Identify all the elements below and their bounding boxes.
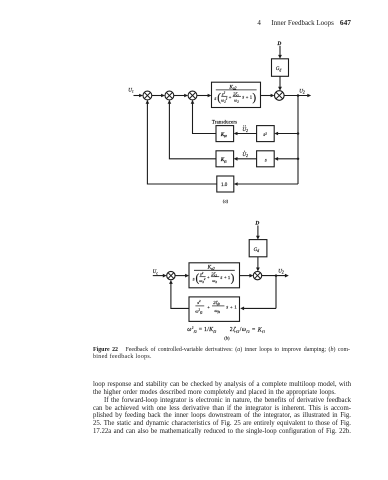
summer SL (fig b) [167,271,175,279]
svg-text:Transducers: Transducers [212,120,237,125]
figure caption line 2 [93,354,350,360]
svg-text:Uc: Uc [128,89,134,94]
svg-text:ω22: ω22 [199,277,206,284]
wire D to block Gd (fig b) [257,226,259,237]
block Ka2 forward transfer function (fig a) [212,82,261,107]
svg-text:ω2f2 = 1/Kf2: ω2f2 = 1/Kf2 [187,326,216,334]
svg-text:1: 1 [234,305,237,310]
svg-text:U2: U2 [299,90,305,95]
wire D to block Gd [279,46,281,55]
fraction bar (fig b forward block) [194,269,235,271]
junction tee on output line (fig b) [275,274,278,277]
svg-text:U2: U2 [242,152,248,158]
svg-text:Ka2: Ka2 [228,84,236,90]
block Gd (fig a) [272,59,289,77]
wire Uc to summer S1 [134,95,141,97]
svg-text:Gd: Gd [254,248,260,253]
svg-text:+: + [230,304,233,309]
figure caption line 1 [93,347,350,353]
svg-text:ω2: ω2 [212,278,217,284]
svg-text:+: + [246,94,249,99]
block Ka2 forward transfer function (fig b) [189,263,240,288]
wire feedback vertical right (fig a) [297,96,299,185]
junction tee on output line (fig a) [297,94,300,97]
summer S2 (fig a) [165,91,174,100]
body text [93,381,351,388]
wire forward block to summer S4 [261,95,272,97]
wire SR to output U2 (fig b) [262,275,285,277]
svg-text:Uc: Uc [153,270,159,275]
block Kf1 transducer gain (fig a) [216,151,234,167]
svg-text:s2: s2 [200,271,204,277]
block feedback s2/wf2^2 + 2zf2/wf2 s + 1 (fig b) [189,297,240,322]
svg-text:+: + [224,275,227,280]
summer SR output junction (fig b) [253,271,261,279]
wire S3 to forward block [197,95,208,97]
wire to block s2 [278,133,298,135]
svg-text:Kf1: Kf1 [220,158,227,163]
svg-text:s2: s2 [263,131,267,138]
block 1.0 unity feedback (fig a) [217,176,234,192]
svg-text:s2: s2 [222,91,226,97]
svg-text:s: s [220,276,222,281]
wire s to Kf1, label U-dot-2 [237,158,256,160]
svg-text:+: + [229,94,232,99]
svg-text:2ζf2: 2ζf2 [213,300,220,306]
junction to s2 branch [297,132,300,135]
svg-text:s: s [214,97,216,102]
svg-text:): ) [252,92,256,104]
fraction bar (fig a forward block) [216,89,257,91]
wire Uc to summer SL [153,275,163,277]
svg-text:D: D [276,41,281,47]
wire Kf1 to summer S2 [169,103,216,159]
junction to s branch [297,158,300,161]
svg-text:2ζf2/ωf2 = Kf1: 2ζf2/ωf2 = Kf1 [230,326,266,333]
block Kf2 transducer gain (fig a) [216,126,234,142]
wire SL to forward block (fig b) [175,275,185,277]
wire S1 to S2 [152,95,162,97]
wire feedback vertical (fig b) [275,276,277,309]
svg-text:U2: U2 [278,269,284,274]
wire to block s [278,158,298,160]
svg-text:s: s [226,306,228,311]
block s differentiator (fig a) [257,151,275,167]
svg-text:s: s [193,277,195,282]
wire forward block to summer SR [240,275,250,277]
svg-text:ω2: ω2 [234,97,239,103]
block s2 differentiator (fig a) [257,126,275,142]
block Gd (fig b) [249,240,267,257]
svg-text:ω22: ω22 [221,97,228,104]
svg-text:s: s [242,96,244,101]
wire Gd to summer S4 [279,76,281,87]
summer S4 output junction (fig a) [275,91,285,101]
wire S4 to output U2 [284,95,307,97]
svg-text:(a): (a) [223,198,229,203]
svg-text:D: D [254,221,259,227]
svg-text:): ) [231,273,235,285]
running head [0,18,351,27]
svg-text:(b): (b) [224,335,230,340]
wire feedback block to summer SL [171,284,189,309]
wire Kf2 to summer S3 [193,103,217,133]
wire S2 to S3 [174,95,185,97]
svg-text:s: s [265,157,267,163]
wire to block 1.0 [238,183,298,185]
summer S3 (fig a) [188,91,197,100]
svg-text:s2: s2 [197,299,201,305]
wire Gd to summer SR [257,257,259,268]
svg-text:ωf2: ωf2 [214,308,220,314]
svg-text:1.0: 1.0 [221,183,228,188]
svg-text:ω2f2: ω2f2 [195,307,203,314]
summer S1 (fig a) [143,91,152,100]
wire s2 to Kf2, label U-ddot-2 [237,133,256,135]
wire 1.0 to summer S1 [147,103,216,184]
svg-text:Kf2: Kf2 [220,133,227,138]
wire into feedback block right side [244,307,276,309]
svg-text:Gd: Gd [276,67,282,72]
svg-text:+: + [207,275,210,280]
svg-text:+: + [207,304,210,309]
svg-text:U2: U2 [242,127,248,133]
svg-text:Ka2: Ka2 [207,265,215,271]
